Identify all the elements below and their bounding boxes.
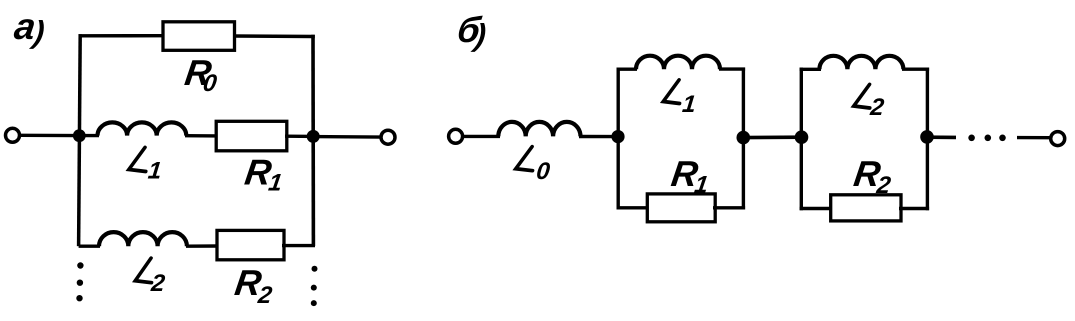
label L2 (circuit a) (133, 258, 168, 297)
wire right rail section 2 b (926, 68, 929, 211)
resistor R0 (163, 22, 235, 51)
wire output a (313, 135, 381, 139)
node A1 (left junction, circuit a) (73, 129, 86, 142)
wire top branch right a (233, 34, 315, 38)
wire top branch left section 2 b (800, 68, 821, 71)
resistor R2 (circuit a) (217, 230, 284, 259)
wire right rail a (311, 35, 315, 246)
wire bottom branch right a (282, 244, 315, 247)
wire middle branch right a (285, 134, 315, 138)
label R1 (circuit b) (668, 153, 712, 198)
inductor L2 (circuit a) (99, 232, 187, 246)
wire top branch right section 1 b (719, 67, 745, 70)
node B4 (circuit b, section 2 right) (920, 130, 934, 144)
resistor R1 (circuit b) (647, 194, 715, 222)
wire middle a (inductor to resistor) (185, 134, 218, 138)
ellipsis dots (continuation, circuit b) (968, 135, 975, 142)
wire top branch left section 1 b (617, 67, 638, 70)
wire top branch right section 2 b (902, 67, 929, 70)
svg-text:2: 2 (868, 94, 886, 121)
resistor R1 (circuit a) (216, 121, 287, 151)
svg-text:1: 1 (681, 91, 697, 118)
wire node B2 to node B3 (743, 135, 801, 139)
wire top branch left a (79, 34, 166, 37)
wire right rail section 1 b (742, 68, 745, 210)
wire L0 to node B1 (579, 135, 619, 139)
wire input a (20, 134, 78, 138)
wire left rail a (79, 34, 81, 246)
label R2 (circuit a) (232, 262, 278, 309)
terminal T1 (left input, circuit a) (6, 128, 20, 142)
svg-text:1: 1 (147, 158, 163, 185)
terminal T2 (right output, circuit a) (381, 130, 395, 144)
svg-text:1: 1 (267, 170, 284, 197)
wire input b (463, 135, 500, 138)
inductor L0 (circuit b) (498, 122, 580, 137)
svg-text:0: 0 (535, 158, 552, 185)
label L1 (circuit a) (127, 148, 164, 185)
wire bottom branch right section 2 b (899, 207, 929, 210)
label R1 (circuit a) (242, 152, 287, 197)
inductor L1 (circuit b) (636, 56, 720, 70)
ellipsis dots below left rail a (77, 262, 83, 268)
node B3 (circuit b, section 2 left) (795, 130, 809, 144)
wire left rail section 2 b (800, 68, 803, 211)
wire left rail section 1 b (617, 68, 620, 210)
terminal T3 (left input, circuit b) (449, 129, 463, 143)
inductor L2 (circuit b) (819, 56, 903, 70)
label R0 (182, 52, 222, 97)
node B1 (circuit b, section 1 left) (611, 130, 624, 143)
node B2 (circuit b, section 1 right) (737, 131, 751, 145)
svg-text:0: 0 (201, 70, 219, 97)
svg-text:2: 2 (149, 270, 167, 297)
label L0 (circuit b) (514, 147, 553, 185)
label L1 (circuit b) (661, 80, 698, 118)
resistor R2 (circuit b) (831, 195, 901, 221)
wire bottom a (inductor to resistor) (186, 244, 219, 248)
inductor L1 (circuit a) (98, 122, 187, 135)
label L2 (circuit b) (852, 85, 887, 121)
wire bottom branch left section 2 b (800, 207, 832, 210)
wire ellipsis to terminal T4 (1017, 136, 1050, 139)
wire bottom branch left a (79, 244, 100, 247)
wire bottom branch right section 1 b (713, 206, 745, 209)
label R2 (circuit b) (851, 153, 896, 199)
ellipsis dots below right rail a (312, 266, 318, 272)
wire middle branch left a (80, 134, 99, 137)
node A2 (right junction, circuit a) (307, 130, 320, 143)
wire bottom branch left section 1 b (617, 206, 650, 209)
label a) (12, 5, 49, 49)
label b) (455, 9, 490, 52)
terminal T4 (right output, circuit b) (1051, 132, 1065, 146)
wire node B4 to ellipsis (927, 135, 956, 139)
